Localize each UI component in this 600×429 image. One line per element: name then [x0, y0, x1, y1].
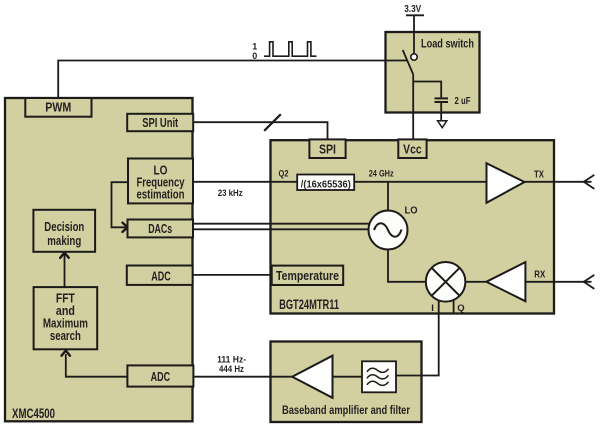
svg-text:DACs: DACs [148, 221, 172, 236]
svg-text:I: I [431, 303, 434, 314]
svg-text:Q2: Q2 [279, 169, 289, 180]
svg-text:3.3V: 3.3V [404, 3, 421, 15]
svg-text:Temperature: Temperature [276, 268, 339, 283]
svg-text:23 kHz: 23 kHz [218, 188, 243, 199]
svg-text:ADC: ADC [151, 268, 171, 283]
svg-text:TX: TX [534, 170, 544, 181]
svg-text:Baseband amplifier and filter: Baseband amplifier and filter [282, 403, 410, 417]
svg-text:24 GHz: 24 GHz [369, 168, 394, 179]
svg-text:estimation: estimation [137, 186, 185, 201]
svg-text:444 Hz: 444 Hz [219, 364, 244, 374]
svg-text:making: making [47, 233, 81, 248]
svg-text:RX: RX [534, 269, 545, 280]
svg-text:Vcc: Vcc [403, 141, 422, 156]
svg-text:BGT24MTR11: BGT24MTR11 [279, 297, 339, 312]
svg-text:search: search [50, 328, 81, 343]
svg-text:Load switch: Load switch [421, 36, 474, 50]
svg-text:XMC4500: XMC4500 [12, 406, 55, 421]
svg-text:SPI Unit: SPI Unit [142, 115, 178, 130]
svg-text:Q: Q [457, 303, 464, 314]
svg-text:SPI: SPI [319, 141, 336, 156]
svg-text:0: 0 [252, 51, 257, 61]
svg-text:/(16x65536): /(16x65536) [301, 179, 351, 190]
svg-text:2 uF: 2 uF [455, 95, 471, 107]
svg-text:LO: LO [405, 205, 418, 216]
svg-text:Decision: Decision [44, 219, 84, 234]
svg-text:ADC: ADC [151, 369, 171, 384]
svg-text:PWM: PWM [45, 100, 71, 115]
